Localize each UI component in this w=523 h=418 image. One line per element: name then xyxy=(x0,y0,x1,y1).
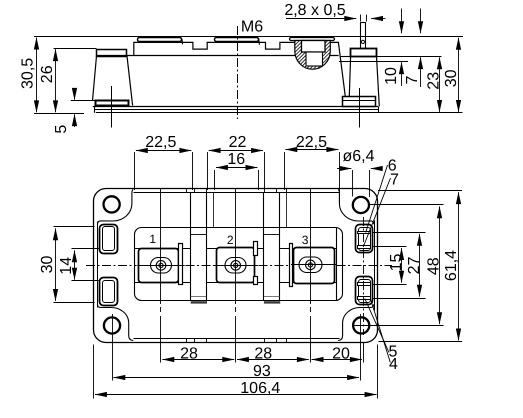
centerline right mounting hole xyxy=(359,88,361,128)
outer outline xyxy=(94,189,378,343)
terminal 1 plate xyxy=(139,242,335,287)
svg-text:30: 30 xyxy=(39,256,56,274)
svg-text:30: 30 xyxy=(443,69,460,87)
svg-text:106,4: 106,4 xyxy=(240,380,280,397)
fast-on tab xyxy=(360,22,362,49)
divider column 1 xyxy=(190,193,192,302)
edge ticks top xyxy=(187,189,287,342)
dim hole ø6,4 xyxy=(352,170,354,197)
svg-text:2: 2 xyxy=(227,233,234,247)
centerline left mounting hole xyxy=(111,86,113,128)
right aux terminal upper xyxy=(356,225,373,253)
divider column 2 xyxy=(263,193,265,302)
svg-text:28: 28 xyxy=(180,345,198,362)
svg-text:10: 10 xyxy=(383,67,400,85)
inner recessed field xyxy=(135,228,343,301)
dim 26 xyxy=(55,49,57,112)
svg-text:93: 93 xyxy=(253,363,271,380)
dim 7 xyxy=(420,57,422,87)
bottom dim 93 xyxy=(113,377,359,379)
svg-text:14: 14 xyxy=(58,257,75,275)
mounting hole TR xyxy=(353,197,369,213)
raised terminal blocks profile xyxy=(134,42,345,96)
screw washer 1 xyxy=(138,38,182,42)
inner outline segments xyxy=(98,193,375,339)
terminal 3 plate xyxy=(294,248,335,284)
svg-text:16: 16 xyxy=(227,151,245,168)
screw terminal 2 xyxy=(225,258,246,274)
terminal screws (ellipse + circles + cross) xyxy=(137,189,336,312)
clamp washer bar (terminal 3) xyxy=(290,38,335,41)
right side down arrows xyxy=(401,9,403,34)
corner pad BL xyxy=(98,304,134,340)
callout leader 6 xyxy=(366,165,388,233)
callout leader 4 xyxy=(371,299,391,363)
left bottom pad xyxy=(96,101,129,106)
dim 5 xyxy=(74,89,76,100)
right dim 15 xyxy=(373,246,407,248)
terminal connector lines xyxy=(134,249,337,283)
left aux slot upper xyxy=(100,225,118,254)
svg-text:48: 48 xyxy=(426,257,443,275)
edge ticks bottom xyxy=(186,339,188,342)
svg-text:3: 3 xyxy=(302,233,309,247)
svg-text:20: 20 xyxy=(332,345,350,362)
left end cap xyxy=(97,50,127,57)
screw terminal 3 xyxy=(299,257,322,273)
dim 30,5 xyxy=(36,38,38,113)
mounting hole BR xyxy=(353,317,369,333)
screw washer 2 xyxy=(215,38,259,42)
callout leader 5 xyxy=(365,299,389,353)
clamp nut rect xyxy=(306,52,323,66)
centerline M6 terminal 2 xyxy=(237,26,239,119)
svg-text:2,8 x 0,5: 2,8 x 0,5 xyxy=(284,2,345,19)
aux tower edges xyxy=(349,56,350,96)
left dim 14 xyxy=(72,248,99,250)
corner pad BR xyxy=(338,304,374,340)
mounting hole BL xyxy=(104,317,120,333)
right inner wall xyxy=(336,228,338,302)
top extension line (max height) xyxy=(34,36,463,38)
bottom dim extension lines xyxy=(160,316,162,363)
clamp cavity rect xyxy=(302,41,326,53)
top dim 16 xyxy=(214,170,216,190)
svg-text:M6: M6 xyxy=(241,19,263,36)
right aux terminal lower xyxy=(356,277,373,305)
top dim 22,5 right xyxy=(284,152,286,190)
left aux slot lower xyxy=(100,278,118,306)
right dim 61,4 xyxy=(378,190,462,192)
baseplate xyxy=(94,109,378,111)
aux vertical centerline xyxy=(363,217,365,335)
svg-text:ø6,4: ø6,4 xyxy=(343,148,375,165)
centerlines side view xyxy=(112,26,360,128)
svg-text:22,5: 22,5 xyxy=(145,134,176,151)
bottom dim 106,4 xyxy=(95,394,377,396)
top dim 22,5 left xyxy=(134,152,136,190)
corner pad TL xyxy=(98,190,134,225)
right bottom pad xyxy=(343,97,376,107)
svg-text:1: 1 xyxy=(149,232,156,246)
svg-text:7: 7 xyxy=(390,172,399,189)
mounting hole TL xyxy=(104,196,120,212)
main top surface silhouette xyxy=(97,55,339,57)
hatched clamp U xyxy=(295,41,331,70)
left end flange edges xyxy=(93,56,97,101)
svg-text:27: 27 xyxy=(406,257,423,275)
svg-text:23: 23 xyxy=(426,72,443,90)
aux tower flange xyxy=(351,49,377,57)
svg-text:7: 7 xyxy=(404,75,421,84)
svg-text:26: 26 xyxy=(39,65,56,83)
svg-text:28: 28 xyxy=(254,345,272,362)
left dim 30 xyxy=(54,226,95,228)
svg-text:22: 22 xyxy=(229,134,247,151)
top dim 22 xyxy=(207,152,209,190)
svg-text:30,5: 30,5 xyxy=(20,58,37,89)
svg-text:22,5: 22,5 xyxy=(296,134,327,151)
terminal 2 plate xyxy=(217,248,255,283)
dim 23 xyxy=(439,57,441,112)
dim 30 xyxy=(458,38,460,112)
module horizontal centerline xyxy=(86,265,392,267)
svg-text:61,4: 61,4 xyxy=(443,250,460,281)
right dim 48 xyxy=(370,204,444,206)
dim 10 xyxy=(401,62,403,86)
right dim 27 xyxy=(373,232,426,234)
corner pad TR xyxy=(338,190,374,225)
screw terminal 1 xyxy=(151,258,172,274)
callout leader 7 xyxy=(363,178,390,247)
svg-text:15: 15 xyxy=(388,254,405,272)
bottom dim chain 28/28/20 xyxy=(162,359,234,361)
svg-text:5: 5 xyxy=(53,125,70,134)
dim 2,8 x 0,5 xyxy=(286,18,356,20)
svg-text:4: 4 xyxy=(389,356,398,373)
case bottom line xyxy=(93,106,378,108)
